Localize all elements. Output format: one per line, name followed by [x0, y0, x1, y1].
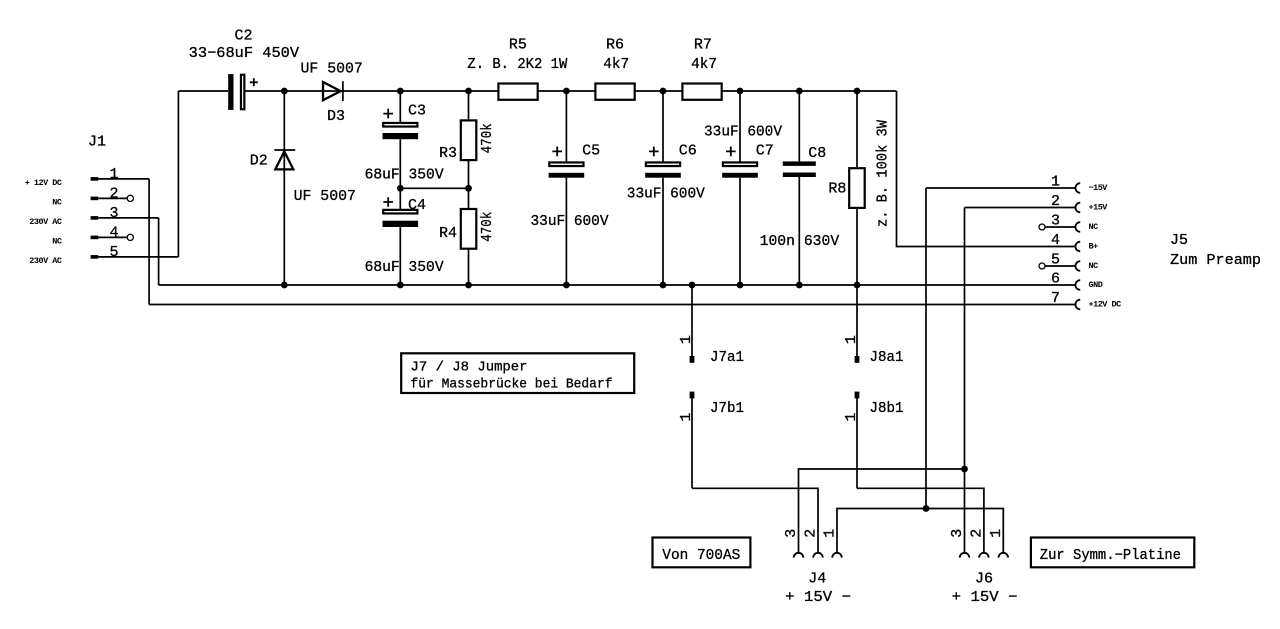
capacitor C7 [704, 91, 782, 285]
svg-text:33uF 600V: 33uF 600V [704, 123, 782, 140]
node top rail C5 [563, 88, 570, 95]
wire +15V from J5 pin2 down to J6 pin3 [964, 208, 966, 553]
svg-text:1: 1 [988, 529, 1005, 538]
svg-text:J4: J4 [808, 570, 826, 587]
node +15V junction [961, 466, 968, 473]
wire GND rail [159, 284, 1076, 286]
svg-text:R8: R8 [828, 181, 846, 198]
J5 pin 6 (GND) [1075, 280, 1080, 290]
svg-text:J8b1: J8b1 [870, 401, 904, 417]
node GND rail C5 [563, 282, 570, 289]
J1 pin 3 [91, 216, 99, 220]
wire C3/C4 midpoint to R3/R4 midpoint [400, 187, 468, 189]
svg-text:2: 2 [1051, 193, 1060, 210]
svg-text:230V AC: 230V AC [29, 256, 62, 266]
svg-text:NC: NC [52, 197, 62, 207]
svg-text:1: 1 [109, 166, 118, 183]
svg-text:NC: NC [1089, 261, 1099, 271]
svg-text:33uF 600V: 33uF 600V [627, 185, 705, 202]
jumper J7a1 [678, 285, 744, 366]
svg-text:7: 7 [1051, 290, 1060, 307]
svg-text:1: 1 [1051, 173, 1060, 190]
svg-text:1: 1 [843, 413, 860, 422]
node C3-C4 junction [397, 185, 404, 192]
node GND rail C7 [737, 282, 744, 289]
svg-text:4k7: 4k7 [691, 56, 717, 73]
jumper J8a1 [843, 285, 903, 366]
svg-text:100n 630V: 100n 630V [760, 233, 840, 250]
svg-text:J7a1: J7a1 [710, 350, 744, 366]
svg-text:+ 12V DC: + 12V DC [25, 178, 62, 188]
svg-text:+12V DC: +12V DC [1089, 300, 1122, 310]
node top rail C8 [796, 88, 803, 95]
resistor R5 [467, 36, 567, 100]
svg-text:230V AC: 230V AC [29, 217, 62, 227]
wire J8b1 to J6 pin2 [857, 488, 984, 553]
node GND rail J7a1 [689, 282, 696, 289]
node top rail C2/D2/D3 [281, 88, 288, 95]
svg-text:2: 2 [803, 529, 820, 538]
svg-text:+ 15V −: + 15V − [785, 589, 851, 606]
wire -15V from J5 pin1 down [925, 188, 927, 509]
svg-text:1: 1 [822, 529, 839, 538]
wire R3/R4 branch vertical [468, 91, 470, 285]
svg-text:J5: J5 [1170, 232, 1188, 249]
capacitor C8 [760, 91, 840, 285]
jumper J7b1 [678, 392, 744, 489]
capacitor C3 [365, 91, 444, 188]
connector J6 [949, 529, 1017, 606]
svg-text:J7b1: J7b1 [710, 401, 744, 417]
node GND rail C4 [397, 282, 404, 289]
svg-text:5: 5 [109, 244, 118, 261]
J6 pin 2 [979, 553, 989, 558]
svg-text:C8: C8 [808, 145, 826, 162]
svg-text:33uF 600V: 33uF 600V [531, 213, 609, 230]
wire +12V DC line [149, 304, 1075, 306]
svg-text:1: 1 [843, 335, 860, 344]
J6 pin 3 [960, 553, 970, 558]
note box Zur Symm.-Platine [1031, 538, 1194, 568]
svg-text:+15V: +15V [1089, 203, 1109, 213]
svg-text:Zur Symm.−Platine: Zur Symm.−Platine [1040, 548, 1181, 564]
svg-text:C7: C7 [756, 143, 774, 160]
svg-text:5: 5 [1051, 251, 1060, 268]
connector J1 [25, 134, 179, 266]
wire J1 pin5 up to C2 [177, 91, 179, 257]
J5 pin 2 (+15V) [965, 207, 1076, 209]
svg-text:für Massebrücke bei Bedarf: für Massebrücke bei Bedarf [411, 378, 613, 393]
node top rail C6 [660, 88, 667, 95]
svg-text:J1: J1 [88, 134, 106, 151]
svg-text:J8a1: J8a1 [870, 350, 904, 366]
J5 pin 5 (NC) [1039, 263, 1045, 269]
wire J1 pin3 to AC return rail [158, 218, 160, 285]
svg-text:2: 2 [109, 185, 118, 202]
svg-text:z. B. 100k 3W: z. B. 100k 3W [874, 120, 891, 227]
wire J4 pin1 to J6 pin1 (-15V) [837, 509, 1003, 553]
node R3-R4 junction [465, 185, 472, 192]
svg-text:C3: C3 [408, 103, 426, 120]
wire J1 pin1 to +12V line [148, 179, 150, 305]
connector J5 [926, 173, 1261, 309]
jumper J8b1 [843, 392, 903, 489]
wire B+ corner to J5 pin 4 [897, 91, 1076, 247]
J5 pin 1 (-15V) [926, 187, 1075, 189]
svg-text:UF 5007: UF 5007 [301, 61, 363, 78]
wire top rail D3 to corner [344, 90, 897, 92]
svg-text:3: 3 [783, 529, 800, 538]
svg-text:Z. B. 2K2 1W: Z. B. 2K2 1W [467, 56, 567, 73]
svg-text:C2: C2 [235, 28, 253, 45]
node GND rail C8 [796, 282, 803, 289]
svg-text:Zum Preamp: Zum Preamp [1170, 252, 1261, 269]
svg-text:3: 3 [949, 529, 966, 538]
node GND rail C6 [660, 282, 667, 289]
node GND rail R4 [465, 282, 472, 289]
node top rail R8 [854, 88, 861, 95]
wire top rail left segment [178, 90, 228, 92]
node GND rail R8/J8a1 [854, 282, 861, 289]
capacitor C4 [365, 188, 444, 285]
diode D2 [250, 91, 356, 285]
svg-text:UF 5007: UF 5007 [294, 188, 356, 205]
resistor R6 [595, 36, 634, 99]
svg-text:NC: NC [52, 236, 62, 246]
resistor R7 [682, 36, 721, 99]
wire J7b1 to J4 pin2 [692, 488, 818, 553]
resistor R8 [828, 91, 891, 285]
J6 pin 1 [999, 553, 1009, 558]
J4 pin 2 [813, 553, 823, 558]
svg-text:R7: R7 [694, 36, 712, 53]
svg-text:R6: R6 [606, 36, 624, 53]
J5 pin 3 (NC) [1039, 224, 1045, 230]
J1 pin 4 (NC) [91, 236, 99, 240]
J4 pin 3 [794, 553, 804, 558]
svg-text:R4: R4 [439, 225, 457, 242]
svg-text:NC: NC [1089, 222, 1099, 232]
svg-text:3: 3 [109, 205, 118, 222]
capacitor C5 [531, 91, 609, 285]
svg-text:6: 6 [1051, 270, 1060, 287]
node -15V junction [923, 505, 930, 512]
svg-text:B+: B+ [1089, 242, 1099, 252]
svg-text:470k: 470k [479, 212, 496, 242]
svg-text:Von 700AS: Von 700AS [662, 548, 740, 564]
node top rail R3/R5 [465, 88, 472, 95]
svg-text:GND: GND [1089, 280, 1103, 290]
node top rail C7 [737, 88, 744, 95]
svg-text:470k: 470k [479, 123, 496, 153]
svg-text:2: 2 [969, 529, 986, 538]
svg-text:1: 1 [678, 335, 695, 344]
svg-text:C4: C4 [408, 197, 426, 214]
node top rail C3 [397, 88, 404, 95]
svg-text:C5: C5 [582, 143, 600, 160]
wire J4 pin3 to +15V node [799, 469, 965, 553]
node GND rail D2 [281, 282, 288, 289]
wire C2 to D2/D3 node [245, 90, 344, 92]
svg-text:R3: R3 [439, 145, 457, 162]
J1 pin 5 [91, 255, 99, 259]
J5 pin 7 (+12V DC) [1075, 300, 1080, 310]
svg-text:4k7: 4k7 [603, 56, 629, 73]
svg-text:68uF 350V: 68uF 350V [365, 259, 444, 276]
svg-text:33−68uF 450V: 33−68uF 450V [189, 45, 299, 62]
svg-text:68uF 350V: 68uF 350V [365, 167, 444, 184]
svg-text:J7 / J8 Jumper: J7 / J8 Jumper [411, 361, 528, 376]
resistor R4 [439, 209, 496, 249]
J1 pin 1 [91, 177, 99, 181]
svg-text:4: 4 [1051, 232, 1060, 249]
svg-text:1: 1 [678, 413, 695, 422]
svg-text:4: 4 [109, 224, 118, 241]
connector J4 [783, 529, 851, 606]
svg-text:C6: C6 [679, 143, 697, 160]
J5 pin 4 (B+) [1075, 242, 1080, 252]
capacitor C6 [627, 91, 705, 285]
diode D3 [301, 61, 363, 125]
J4 pin 1 [832, 553, 842, 558]
note box Von 700AS [653, 538, 751, 568]
note box J7/J8 jumper [401, 353, 634, 393]
J1 pin 2 (NC) [91, 197, 99, 201]
svg-text:−15V: −15V [1089, 183, 1109, 193]
resistor R3 [439, 120, 496, 162]
svg-text:D3: D3 [327, 108, 345, 125]
capacitor C2 [189, 28, 299, 110]
svg-text:+ 15V −: + 15V − [952, 589, 1018, 606]
svg-text:3: 3 [1051, 212, 1060, 229]
svg-text:R5: R5 [509, 36, 527, 53]
svg-text:J6: J6 [975, 570, 993, 587]
svg-text:D2: D2 [250, 152, 268, 169]
